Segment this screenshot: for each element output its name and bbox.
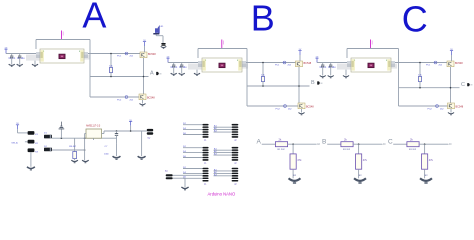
svg-text:BC548: BC548 [456, 105, 464, 108]
svg-text:8: 8 [386, 60, 387, 62]
svg-text:47k: 47k [297, 158, 302, 162]
svg-text:8: 8 [237, 60, 238, 62]
svg-text:B: B [322, 138, 326, 145]
svg-text:8: 8 [79, 51, 80, 53]
svg-text:A: A [150, 71, 154, 77]
svg-text:R1 202: R1 202 [278, 149, 286, 151]
svg-text:B: B [311, 80, 315, 86]
svg-text:BC548: BC548 [455, 62, 463, 65]
svg-text:5V: 5V [148, 138, 151, 140]
svg-text:R1 202: R1 202 [343, 149, 351, 151]
svg-text:47k: 47k [429, 158, 434, 162]
svg-text:SW_A: SW_A [11, 142, 18, 145]
svg-text:B: B [251, 0, 275, 39]
svg-text:C2 10u: C2 10u [179, 67, 187, 69]
svg-text:1: 1 [205, 60, 206, 62]
svg-text:C2 10u: C2 10u [17, 58, 25, 60]
svg-text:5V: 5V [165, 171, 168, 173]
svg-text:100n: 100n [104, 154, 110, 156]
svg-text:C1 0.1: C1 0.1 [171, 67, 178, 69]
svg-text:AMS1117-3.3: AMS1117-3.3 [86, 125, 101, 128]
svg-text:C1 0.1: C1 0.1 [320, 67, 327, 69]
svg-text:Arduino NANO: Arduino NANO [208, 192, 236, 197]
svg-text:C: C [402, 0, 428, 39]
svg-text:R9 4k7: R9 4k7 [69, 146, 77, 148]
svg-text:BC548: BC548 [304, 62, 312, 65]
svg-text:R1 202: R1 202 [409, 149, 417, 151]
svg-text:BC548: BC548 [148, 53, 156, 56]
svg-text:47k: 47k [363, 158, 368, 162]
svg-text:1: 1 [354, 60, 355, 62]
svg-text:C2 10u: C2 10u [328, 67, 336, 69]
svg-text:A: A [82, 0, 106, 35]
svg-text:C: C [388, 138, 393, 145]
svg-text:C: C [461, 82, 465, 88]
svg-text:BC548: BC548 [147, 96, 155, 99]
svg-text:A: A [257, 138, 262, 145]
svg-text:1: 1 [43, 51, 44, 53]
svg-text:C1 0.1: C1 0.1 [9, 58, 16, 60]
svg-text:BC548: BC548 [306, 105, 314, 108]
